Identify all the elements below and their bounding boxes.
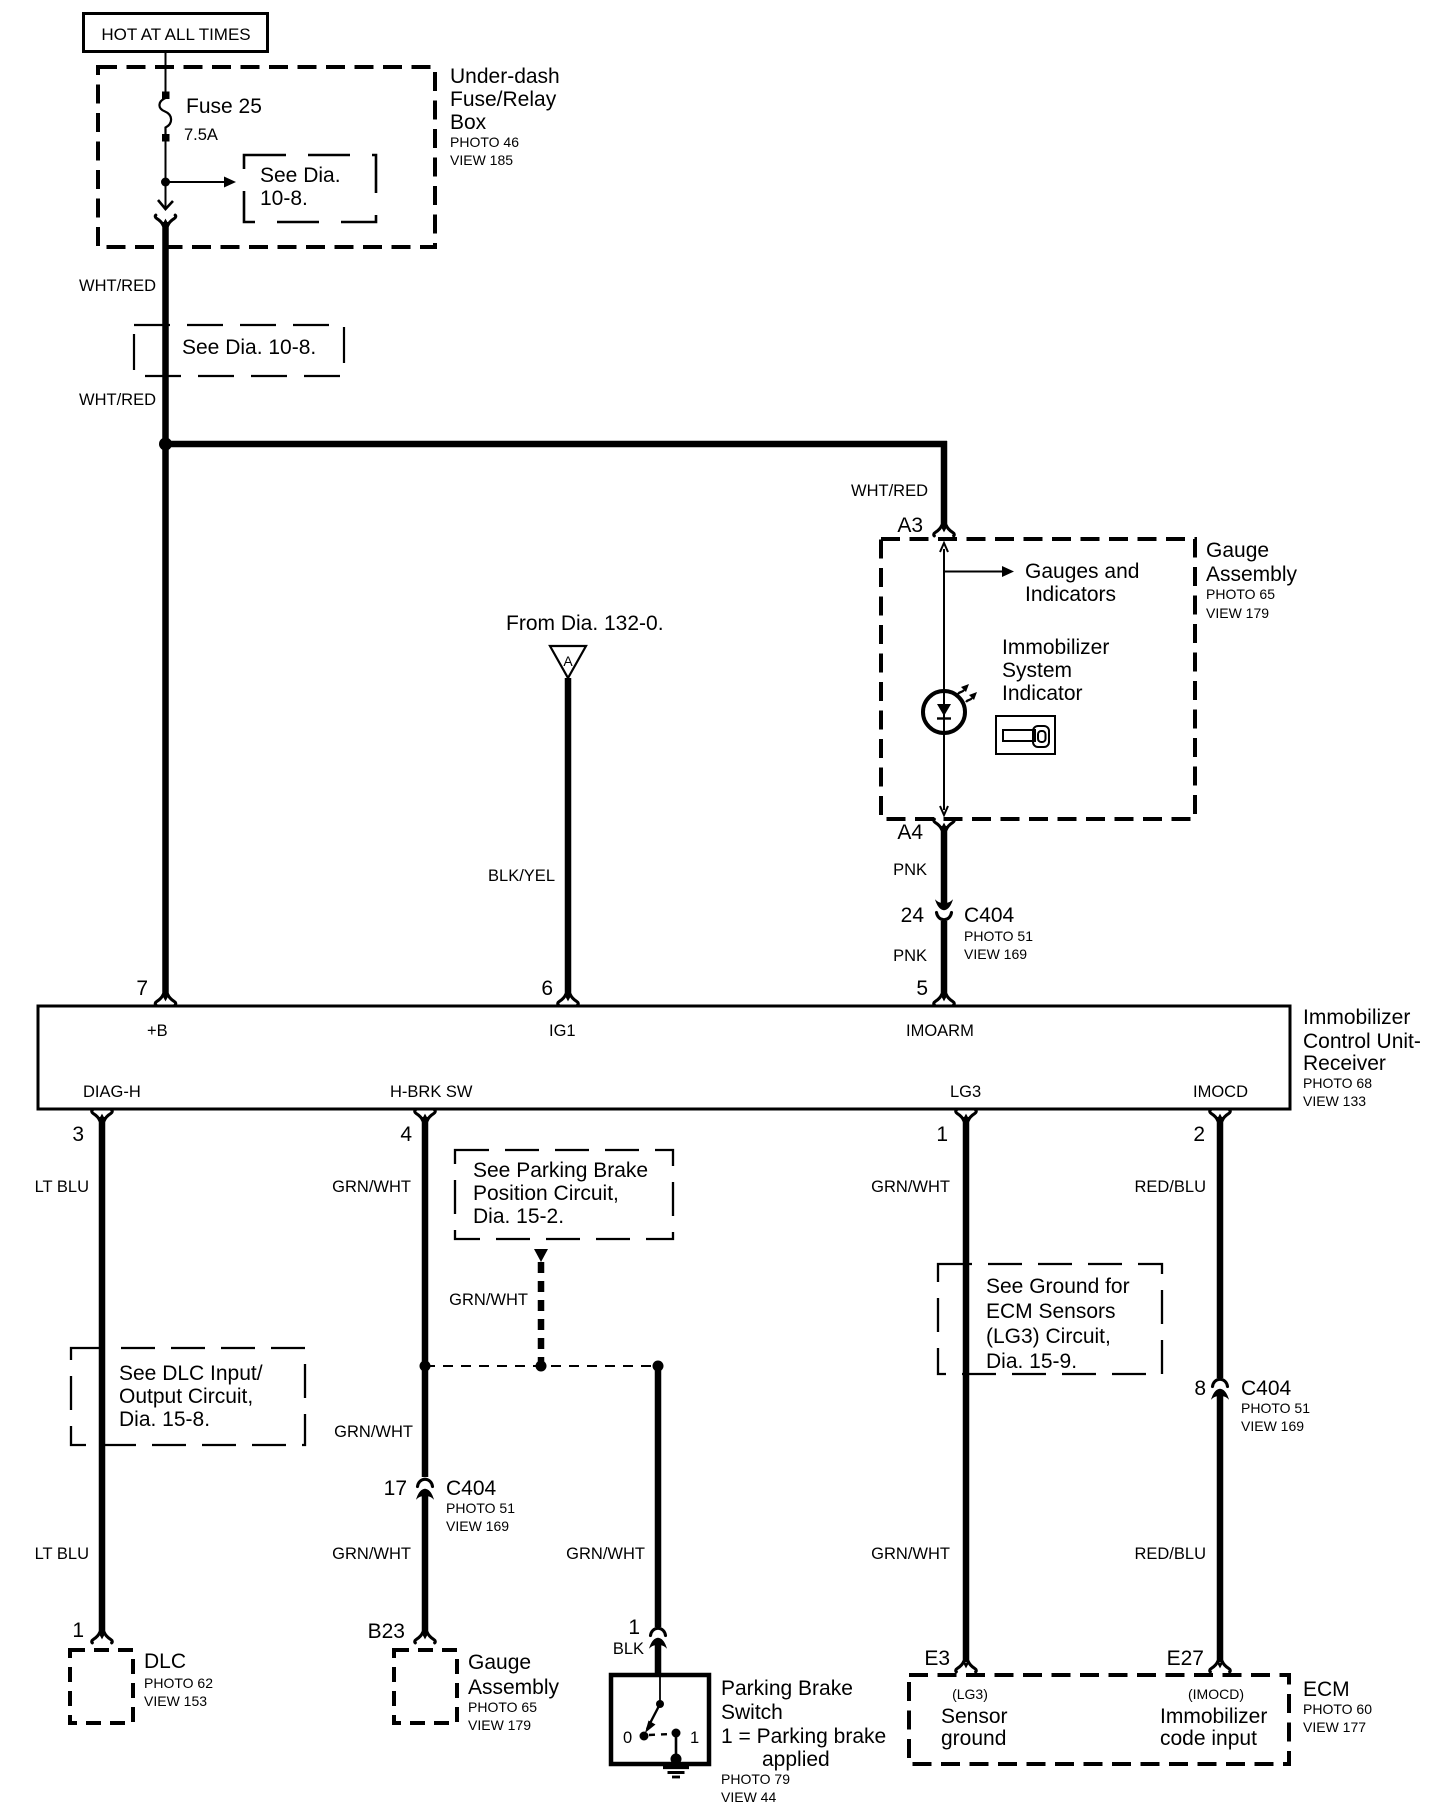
svg-text:GRN/WHT: GRN/WHT <box>871 1178 950 1196</box>
See Ground for ECM Sensors reference box <box>938 1264 1162 1374</box>
junction dashed link <box>425 1365 658 1367</box>
DLC label <box>144 1650 213 1709</box>
junction node <box>536 1361 547 1372</box>
svg-text:GRN/WHT: GRN/WHT <box>449 1291 528 1309</box>
svg-text:VIEW 179: VIEW 179 <box>1206 605 1269 621</box>
svg-text:Gauge: Gauge <box>468 1651 531 1674</box>
svg-text:8: 8 <box>1194 1377 1206 1400</box>
connector pin 1 at parking brake <box>651 1628 666 1646</box>
svg-text:0: 0 <box>623 1729 632 1747</box>
See DLC Input/Output reference box <box>71 1348 305 1445</box>
wire (WHT/RED) fuse box to pin 7 <box>162 222 169 997</box>
ECM pin function (LG3) sensor ground <box>941 1686 1008 1750</box>
connector C404 pin 24 <box>937 902 952 920</box>
svg-text:VIEW 169: VIEW 169 <box>446 1518 509 1534</box>
arrowhead down at fuse output <box>158 200 173 209</box>
svg-text:Switch: Switch <box>721 1701 783 1724</box>
svg-text:2: 2 <box>1193 1123 1205 1146</box>
svg-text:E27: E27 <box>1167 1647 1204 1670</box>
wire A4 to C404 <box>941 826 948 905</box>
svg-text:24: 24 <box>901 904 925 927</box>
junction node <box>653 1361 664 1372</box>
receptacle at A4 <box>934 819 954 830</box>
svg-text:Assembly: Assembly <box>1206 563 1298 586</box>
svg-text:Immobilizer: Immobilizer <box>1160 1705 1267 1728</box>
svg-text:BLK: BLK <box>613 1640 644 1658</box>
fuse 25 7.5A <box>159 92 261 145</box>
svg-text:B23: B23 <box>368 1620 405 1643</box>
svg-text:See DLC Input/: See DLC Input/ <box>119 1362 263 1385</box>
LED immobilizer system indicator <box>923 684 977 733</box>
See Parking Brake reference box <box>455 1150 673 1239</box>
svg-text:A4: A4 <box>897 821 923 844</box>
svg-text:VIEW 177: VIEW 177 <box>1303 1719 1366 1735</box>
svg-text:See Ground for: See Ground for <box>986 1275 1130 1298</box>
svg-text:A: A <box>563 653 573 669</box>
ECM label <box>1303 1678 1372 1735</box>
svg-text:C404: C404 <box>964 904 1015 927</box>
wire C404 to B23 <box>422 1494 429 1634</box>
svg-text:DLC: DLC <box>144 1650 186 1673</box>
svg-text:From Dia. 132-0.: From Dia. 132-0. <box>506 612 664 635</box>
svg-text:VIEW 44: VIEW 44 <box>721 1789 776 1805</box>
svg-text:Gauge: Gauge <box>1206 539 1269 562</box>
svg-text:VIEW 179: VIEW 179 <box>468 1717 531 1733</box>
svg-text:17: 17 <box>384 1477 407 1500</box>
svg-text:PHOTO 51: PHOTO 51 <box>1241 1400 1310 1416</box>
svg-text:1: 1 <box>690 1729 699 1747</box>
gauge assembly label <box>1206 539 1298 621</box>
svg-text:LG3: LG3 <box>950 1083 981 1101</box>
svg-text:Indicator: Indicator <box>1002 682 1083 705</box>
svg-text:Indicators: Indicators <box>1025 583 1116 606</box>
svg-text:Box: Box <box>450 111 487 134</box>
svg-text:5: 5 <box>916 977 928 1000</box>
svg-text:applied: applied <box>762 1748 830 1771</box>
svg-text:C404: C404 <box>1241 1377 1292 1400</box>
svg-text:Immobilizer: Immobilizer <box>1002 636 1109 659</box>
From Dia. 132-0. source <box>506 612 664 678</box>
svg-text:VIEW 153: VIEW 153 <box>144 1693 207 1709</box>
svg-text:Receiver: Receiver <box>1303 1052 1386 1075</box>
svg-text:PHOTO 60: PHOTO 60 <box>1303 1701 1372 1717</box>
wire (LT BLU) pin 3 to DLC <box>99 1117 106 1634</box>
junction in fuse box <box>161 178 170 187</box>
svg-text:ECM Sensors: ECM Sensors <box>986 1300 1116 1323</box>
gauge assembly box (bottom) <box>394 1650 457 1723</box>
receptacle at A3 <box>934 525 954 536</box>
DLC box <box>70 1650 133 1723</box>
parking brake switch label <box>721 1677 886 1805</box>
svg-text:PNK: PNK <box>893 947 927 965</box>
svg-text:VIEW 169: VIEW 169 <box>964 946 1027 962</box>
wire branch to gauge assembly <box>166 441 948 448</box>
svg-text:See Dia. 10-8.: See Dia. 10-8. <box>182 336 316 359</box>
wire (RED/BLU) pin 2 to C404 <box>1217 1117 1224 1378</box>
wire C404 to E27 <box>1217 1394 1224 1662</box>
under-dash fuse/relay box label <box>450 65 560 168</box>
svg-text:GRN/WHT: GRN/WHT <box>334 1423 413 1441</box>
svg-text:E3: E3 <box>924 1647 950 1670</box>
svg-text:IG1: IG1 <box>549 1022 576 1040</box>
svg-text:(LG3): (LG3) <box>952 1686 988 1702</box>
svg-text:Parking Brake: Parking Brake <box>721 1677 853 1700</box>
junction node <box>159 438 172 451</box>
svg-text:+B: +B <box>147 1022 168 1040</box>
svg-text:Dia. 15-9.: Dia. 15-9. <box>986 1350 1077 1373</box>
arrow from parking brake circuit <box>534 1249 548 1262</box>
svg-text:WHT/RED: WHT/RED <box>851 482 928 500</box>
immobilizer control unit-receiver box <box>38 1006 1290 1109</box>
svg-text:A3: A3 <box>897 514 923 537</box>
svg-text:Sensor: Sensor <box>941 1705 1008 1728</box>
svg-text:ground: ground <box>941 1727 1006 1750</box>
svg-text:3: 3 <box>72 1123 84 1146</box>
svg-text:1: 1 <box>72 1619 84 1642</box>
svg-text:Assembly: Assembly <box>468 1676 560 1699</box>
svg-text:Dia. 15-8.: Dia. 15-8. <box>119 1408 210 1431</box>
svg-text:Position Circuit,: Position Circuit, <box>473 1182 619 1205</box>
svg-text:Immobilizer: Immobilizer <box>1303 1006 1410 1029</box>
svg-text:Under-dash: Under-dash <box>450 65 560 88</box>
gauge assembly bottom label <box>468 1651 560 1733</box>
svg-text:WHT/RED: WHT/RED <box>79 391 156 409</box>
svg-text:GRN/WHT: GRN/WHT <box>871 1545 950 1563</box>
arrow to See Dia. 10-8. <box>166 177 237 188</box>
immobilizer system indicator label <box>1002 636 1109 705</box>
svg-text:1: 1 <box>936 1123 948 1146</box>
svg-text:Fuse/Relay: Fuse/Relay <box>450 88 557 111</box>
node HOT AT ALL TIMES <box>84 14 268 52</box>
svg-text:IMOCD: IMOCD <box>1193 1083 1248 1101</box>
svg-text:Control Unit-: Control Unit- <box>1303 1030 1421 1053</box>
svg-text:PHOTO 79: PHOTO 79 <box>721 1771 790 1787</box>
key icon <box>996 716 1055 754</box>
svg-text:VIEW 169: VIEW 169 <box>1241 1418 1304 1434</box>
svg-text:PHOTO 65: PHOTO 65 <box>468 1699 537 1715</box>
svg-text:Dia. 15-2.: Dia. 15-2. <box>473 1205 564 1228</box>
svg-text:VIEW 185: VIEW 185 <box>450 152 513 168</box>
svg-text:PHOTO 65: PHOTO 65 <box>1206 586 1275 602</box>
See Dia. 10-8. reference box (in fuse box) <box>244 155 376 222</box>
svg-text:GRN/WHT: GRN/WHT <box>332 1545 411 1563</box>
svg-text:code input: code input <box>1160 1727 1257 1750</box>
internal wire A3 to A4 <box>940 543 948 815</box>
svg-text:GRN/WHT: GRN/WHT <box>566 1545 645 1563</box>
ECM pin function (IMOCD) immobilizer code input <box>1160 1686 1267 1750</box>
svg-text:PHOTO 68: PHOTO 68 <box>1303 1075 1372 1091</box>
svg-text:See Dia.: See Dia. <box>260 164 341 187</box>
svg-text:RED/BLU: RED/BLU <box>1134 1178 1206 1196</box>
svg-text:VIEW 133: VIEW 133 <box>1303 1093 1366 1109</box>
svg-text:1 = Parking brake: 1 = Parking brake <box>721 1725 886 1748</box>
svg-text:PHOTO 51: PHOTO 51 <box>964 928 1033 944</box>
svg-text:H-BRK SW: H-BRK SW <box>390 1083 473 1101</box>
svg-text:LT BLU: LT BLU <box>35 1178 89 1196</box>
svg-text:PHOTO 62: PHOTO 62 <box>144 1675 213 1691</box>
svg-text:IMOARM: IMOARM <box>906 1022 974 1040</box>
arrow to gauges and indicators <box>944 560 1139 606</box>
svg-text:PHOTO 46: PHOTO 46 <box>450 134 519 150</box>
wire junction to parking brake switch <box>655 1366 662 1627</box>
ground <box>663 1768 689 1778</box>
See Dia. 10-8. reference box (on wire) <box>134 325 344 376</box>
svg-text:ECM: ECM <box>1303 1678 1350 1701</box>
receptacle below fuse output <box>155 215 175 226</box>
wire (BLK) to switch <box>655 1643 662 1676</box>
under-dash fuse/relay box <box>98 67 435 247</box>
ECM box <box>909 1675 1289 1764</box>
wire fuse to exit arrow <box>165 141 167 209</box>
svg-text:WHT/RED: WHT/RED <box>79 277 156 295</box>
svg-text:PHOTO 51: PHOTO 51 <box>446 1500 515 1516</box>
gauge assembly box <box>881 539 1195 819</box>
svg-text:C404: C404 <box>446 1477 497 1500</box>
parking brake switch box <box>611 1675 709 1764</box>
svg-text:System: System <box>1002 659 1072 682</box>
immobilizer control unit label <box>1303 1006 1421 1109</box>
svg-text:LT BLU: LT BLU <box>35 1545 89 1563</box>
connector C404 pin 17 <box>418 1479 433 1497</box>
svg-text:4: 4 <box>400 1123 412 1146</box>
svg-text:1: 1 <box>628 1616 640 1639</box>
svg-text:(LG3) Circuit,: (LG3) Circuit, <box>986 1325 1111 1348</box>
svg-text:DIAG-H: DIAG-H <box>83 1083 141 1101</box>
junction node <box>420 1361 431 1372</box>
svg-text:BLK/YEL: BLK/YEL <box>488 867 555 885</box>
svg-text:6: 6 <box>541 977 553 1000</box>
svg-text:7.5A: 7.5A <box>184 126 218 144</box>
switch internals <box>623 1677 699 1765</box>
svg-text:PNK: PNK <box>893 861 927 879</box>
svg-text:10-8.: 10-8. <box>260 187 308 210</box>
svg-text:Gauges and: Gauges and <box>1025 560 1139 583</box>
dashed wire (GRN/WHT) <box>538 1262 545 1362</box>
wire C404 to pin 5 <box>941 921 948 997</box>
svg-text:See Parking Brake: See Parking Brake <box>473 1159 648 1182</box>
svg-text:7: 7 <box>136 977 148 1000</box>
wire (GRN/WHT) pin 1 to E3 <box>963 1117 970 1662</box>
wire (GRN/WHT) pin 4 to junction <box>422 1117 429 1477</box>
connector C404 pin 8 <box>1213 1379 1228 1397</box>
wire from HOT feed to fuse <box>165 51 167 95</box>
svg-text:HOT AT ALL TIMES: HOT AT ALL TIMES <box>101 25 250 44</box>
svg-text:GRN/WHT: GRN/WHT <box>332 1178 411 1196</box>
svg-text:RED/BLU: RED/BLU <box>1134 1545 1206 1563</box>
svg-text:(IMOCD): (IMOCD) <box>1188 1686 1244 1702</box>
svg-text:Fuse 25: Fuse 25 <box>186 95 262 118</box>
svg-text:Output Circuit,: Output Circuit, <box>119 1385 253 1408</box>
wire (BLK/YEL) to pin 6 <box>565 678 572 997</box>
